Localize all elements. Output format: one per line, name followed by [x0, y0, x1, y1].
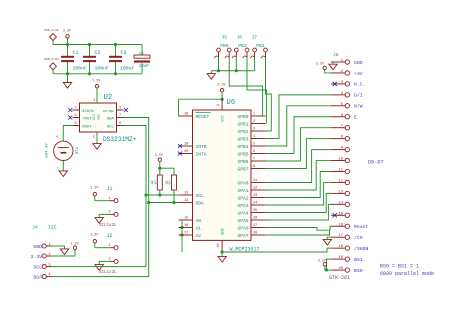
svg-text:GPB3: GPB3: [237, 136, 248, 142]
svg-text:3.3V: 3.3V: [63, 29, 72, 33]
svg-text:3.3V: 3.3V: [70, 243, 79, 247]
svg-text:J4: J4: [32, 224, 38, 230]
svg-text:GPB6: GPB6: [237, 159, 248, 165]
svg-text:7: 7: [341, 125, 343, 129]
svg-text:2: 2: [109, 211, 111, 215]
svg-text:+3V: +3V: [354, 71, 363, 77]
svg-text:-: -: [56, 166, 59, 171]
svg-text:12: 12: [338, 179, 343, 183]
svg-text:J6: J6: [237, 35, 243, 41]
svg-text:INT/SQW: INT/SQW: [103, 109, 114, 113]
svg-text:17: 17: [184, 232, 188, 236]
svg-text:GPA1: GPA1: [237, 188, 248, 194]
svg-text:24: 24: [253, 202, 257, 206]
svg-text:27: 27: [253, 224, 257, 228]
svg-text:INTB: INTB: [196, 144, 207, 150]
svg-text:1: 1: [109, 244, 111, 248]
svg-text:5: 5: [93, 136, 95, 140]
svg-text:16: 16: [184, 224, 188, 228]
svg-text:SDA: SDA: [107, 118, 115, 122]
svg-text:1: 1: [109, 197, 111, 201]
svg-text:/RST: /RST: [82, 117, 92, 122]
svg-text:SDA: SDA: [196, 200, 205, 206]
svg-text:GPB2: GPB2: [237, 129, 248, 135]
svg-text:GPB4: GPB4: [237, 144, 248, 150]
svg-text:+: +: [56, 135, 59, 140]
svg-text:RESET: RESET: [196, 114, 210, 120]
svg-text:BS0: BS0: [354, 268, 363, 274]
svg-text:D/I: D/I: [354, 93, 363, 99]
svg-text:GPB7: GPB7: [237, 166, 248, 172]
svg-text:1: 1: [48, 243, 50, 247]
svg-text:15: 15: [184, 217, 188, 221]
svg-text:6800 parallel mode: 6800 parallel mode: [380, 271, 434, 277]
svg-text:13: 13: [338, 190, 343, 194]
svg-text:22: 22: [253, 187, 257, 191]
svg-text:3: 3: [253, 128, 255, 132]
svg-text:GND: GND: [354, 60, 363, 66]
svg-text:19: 19: [184, 143, 188, 147]
svg-text:SCL: SCL: [196, 193, 205, 199]
svg-text:GPA2: GPA2: [237, 195, 248, 201]
svg-text:2: 2: [109, 258, 111, 262]
svg-text:PWR_FLAG: PWR_FLAG: [44, 57, 59, 61]
svg-text:3.3V: 3.3V: [30, 254, 42, 260]
svg-text:SDA: SDA: [33, 274, 42, 280]
svg-text:2: 2: [253, 120, 255, 124]
svg-text:GPB5: GPB5: [237, 151, 248, 157]
svg-text:3.3V: 3.3V: [318, 259, 327, 263]
svg-text:23: 23: [253, 194, 257, 198]
svg-text:GND: GND: [221, 228, 225, 234]
svg-text:18: 18: [338, 245, 343, 249]
svg-text:SIL1x2L: SIL1x2L: [99, 271, 117, 275]
svg-text:BAT 3V: BAT 3V: [46, 143, 50, 158]
svg-text:3.3V: 3.3V: [92, 80, 101, 84]
svg-text:17: 17: [338, 234, 343, 238]
svg-text:26: 26: [253, 217, 257, 221]
svg-text:J2: J2: [107, 233, 113, 239]
svg-text:8: 8: [253, 165, 255, 169]
svg-text:BS1: BS1: [354, 257, 363, 263]
svg-text:VCC: VCC: [93, 114, 97, 120]
svg-text:6: 6: [253, 150, 255, 154]
svg-text:VBAT: VBAT: [82, 126, 92, 130]
svg-text:SCL: SCL: [107, 126, 115, 130]
svg-text:GPB0: GPB0: [237, 114, 248, 120]
svg-text:16: 16: [338, 223, 343, 227]
svg-text:N.C.: N.C.: [354, 82, 366, 88]
svg-text:3: 3: [119, 107, 121, 111]
svg-text:D0-D7: D0-D7: [368, 160, 384, 166]
svg-text:PB2: PB2: [256, 43, 265, 49]
svg-text:18: 18: [184, 113, 188, 117]
svg-text:4K7: 4K7: [154, 180, 157, 185]
svg-text:3: 3: [48, 263, 50, 267]
svg-text:C4: C4: [139, 53, 144, 57]
svg-text:13: 13: [184, 199, 188, 203]
svg-text:15: 15: [338, 212, 343, 216]
svg-text:GTK-281: GTK-281: [329, 275, 350, 281]
svg-text:GPA0: GPA0: [237, 180, 248, 186]
svg-text:R/W: R/W: [354, 104, 363, 110]
svg-text:100nF: 100nF: [95, 65, 110, 71]
svg-text:3.3V: 3.3V: [90, 186, 99, 190]
svg-text:20: 20: [184, 150, 188, 154]
svg-text:DS3231MZ+: DS3231MZ+: [103, 136, 137, 143]
svg-text:2: 2: [93, 99, 95, 103]
svg-text:2: 2: [48, 253, 50, 257]
svg-text:INTA: INTA: [196, 151, 207, 157]
svg-text:GPA5: GPA5: [237, 218, 248, 224]
svg-text:J5: J5: [222, 35, 228, 41]
svg-text:20: 20: [338, 267, 343, 271]
svg-text:GPA4: GPA4: [237, 210, 248, 216]
svg-text:BS0 = BS1 = 1: BS0 = BS1 = 1: [380, 263, 419, 269]
svg-text:10: 10: [217, 243, 221, 247]
svg-text:100nF: 100nF: [120, 65, 135, 71]
svg-text:3.3V: 3.3V: [155, 154, 164, 158]
svg-text:PB0: PB0: [220, 43, 229, 49]
svg-text:4: 4: [253, 135, 255, 139]
svg-text:SIL1x2L: SIL1x2L: [99, 224, 117, 228]
svg-text:SCL: SCL: [33, 264, 42, 270]
svg-text:11: 11: [338, 169, 343, 173]
svg-text:GPA6: GPA6: [237, 225, 248, 231]
svg-text:1: 1: [253, 113, 255, 117]
svg-text:8: 8: [75, 122, 77, 126]
svg-text:VCC: VCC: [221, 115, 225, 121]
svg-text:7: 7: [119, 114, 121, 118]
svg-text:J1: J1: [107, 186, 113, 192]
svg-text:100nF: 100nF: [73, 65, 88, 71]
svg-text:GPB1: GPB1: [237, 121, 248, 127]
svg-text:10: 10: [338, 158, 343, 162]
svg-text:C2: C2: [95, 50, 101, 56]
svg-text:J8: J8: [333, 52, 339, 58]
svg-text:PB1: PB1: [238, 43, 247, 49]
svg-text:GPA3: GPA3: [237, 203, 248, 209]
svg-text:/SHDN: /SHDN: [354, 246, 369, 252]
svg-text:9: 9: [217, 104, 221, 106]
svg-text:GND: GND: [33, 244, 42, 250]
svg-text:1: 1: [75, 107, 77, 111]
svg-text:3.3V: 3.3V: [217, 84, 226, 88]
svg-text:19: 19: [338, 256, 343, 260]
svg-text:7: 7: [253, 158, 255, 162]
svg-text:U2: U2: [104, 94, 113, 102]
svg-text:A0: A0: [196, 218, 202, 224]
svg-text:25: 25: [253, 209, 257, 213]
svg-text:28: 28: [253, 232, 257, 236]
svg-text:14: 14: [338, 201, 343, 205]
svg-text:E: E: [354, 115, 357, 121]
svg-text:GPA7: GPA7: [237, 233, 248, 239]
svg-text:C1: C1: [73, 50, 79, 56]
svg-text:10uF: 10uF: [139, 65, 150, 69]
svg-text:3.3V: 3.3V: [316, 62, 325, 66]
svg-text:Reset: Reset: [354, 224, 369, 230]
svg-text:A2: A2: [196, 233, 202, 239]
svg-text:C3: C3: [121, 50, 127, 56]
svg-text:21: 21: [253, 179, 257, 183]
svg-text:6: 6: [119, 122, 121, 126]
svg-text:5: 5: [253, 143, 255, 147]
svg-text:U6: U6: [227, 99, 236, 107]
svg-text:PWR_FLAG: PWR_FLAG: [44, 28, 59, 32]
svg-text:4: 4: [75, 114, 77, 118]
svg-text:GND: GND: [98, 114, 101, 120]
svg-text:A1: A1: [196, 225, 202, 231]
svg-text:J7: J7: [252, 35, 258, 41]
svg-text:BT1: BT1: [76, 146, 80, 154]
svg-text:12: 12: [184, 192, 188, 196]
svg-text:4K7: 4K7: [169, 180, 172, 185]
svg-text:/CS: /CS: [354, 235, 363, 241]
svg-text:4: 4: [48, 273, 50, 277]
svg-text:3.3V: 3.3V: [90, 233, 99, 237]
svg-text:I2C: I2C: [48, 224, 57, 230]
svg-text:32kHz: 32kHz: [82, 109, 95, 114]
